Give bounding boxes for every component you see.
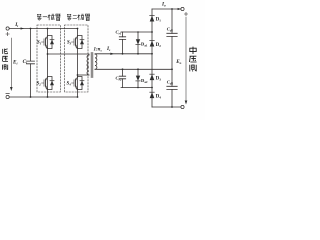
capacitor Cr2 (122, 69, 124, 87)
svg-text:S3: S3 (67, 41, 72, 46)
label 低压侧 (vertical) (2, 49, 8, 70)
wire output bottom rail (152, 106, 181, 108)
transistor S2 (42, 77, 48, 90)
node clamp2 left (122, 68, 124, 70)
transistor S1 (42, 36, 48, 49)
node string-clamp2 (151, 87, 153, 89)
wire leg1 mid to primary top (48, 54, 90, 55)
diode D4 (150, 92, 155, 98)
第 (67, 14, 71, 21)
capacitor Cd1 (171, 9, 173, 69)
terminal - (output negative) (181, 105, 184, 108)
node caps top (171, 8, 173, 10)
node leg1 mid (47, 53, 49, 55)
svg-text:S1: S1 (37, 41, 42, 46)
diode S3 antiparallel (78, 36, 85, 49)
node leg1 bottom (47, 96, 49, 98)
桥 (48, 14, 55, 20)
transistor S4 (72, 77, 78, 90)
dashed box leg2 (65, 25, 89, 92)
svg-text:D4: D4 (156, 94, 161, 99)
transformer core (91, 53, 93, 78)
label Ii current arrow (21, 27, 24, 29)
第 (37, 14, 41, 21)
臂 (56, 14, 61, 20)
diode S4 antiparallel (78, 77, 85, 90)
wire secondary top rail (95, 53, 152, 55)
侧 (190, 65, 196, 72)
node string-clamp1 (151, 31, 153, 33)
桥 (78, 14, 85, 20)
label 中压侧 (vertical) (190, 47, 197, 72)
wire top-left rail (9, 28, 77, 30)
低 (3, 49, 8, 54)
svg-text:D1: D1 (156, 17, 161, 22)
diode D3 (150, 74, 155, 80)
svg-text:D2: D2 (156, 43, 161, 48)
transformer secondary winding (95, 54, 97, 69)
node clamp1 diode top (137, 31, 139, 33)
diode S2 antiparallel (48, 77, 55, 90)
臂 (85, 14, 89, 20)
压 (2, 56, 8, 61)
node clamp1 diode (137, 53, 139, 55)
diode Da2 (137, 69, 139, 87)
capacitor Cr1 (122, 32, 124, 54)
侧 (3, 65, 8, 70)
svg-text:1:ns: 1:ns (94, 48, 103, 53)
transistor S3 (72, 36, 78, 49)
svg-text:D3: D3 (156, 76, 161, 81)
wire leg1 vertical (47, 29, 49, 98)
node clamp2 diode bottom (137, 87, 139, 89)
capacitor Cd2 (171, 69, 173, 107)
terminal + (input positive) (6, 27, 9, 30)
text labels (12, 2, 182, 100)
CJK glyph strokes (2, 14, 196, 71)
label 第一桥臂 (37, 14, 60, 21)
wire leg2 mid to primary bottom (78, 74, 90, 76)
node leg2 bottom (77, 96, 79, 98)
node leg2 top (77, 28, 79, 30)
node leg1 top (47, 28, 49, 30)
node string-secondary (151, 53, 153, 55)
node leg2 mid (77, 74, 79, 76)
node caps mid (171, 68, 173, 70)
node input-cap top (30, 28, 32, 30)
clamp top wire (121, 31, 152, 33)
wire rectifier string (151, 9, 153, 107)
label 第二桥臂 (67, 14, 90, 21)
diode D1 (150, 21, 155, 23)
terminal + (output positive) (181, 7, 184, 10)
一 (43, 16, 48, 18)
diode Da1 (137, 32, 139, 54)
node caps bottom (171, 106, 173, 108)
dashed box leg1 (37, 25, 61, 92)
node input-cap bottom (30, 96, 32, 98)
node clamp1 left (122, 53, 124, 55)
arrow is current (110, 53, 114, 55)
capacitor Ci (30, 29, 32, 98)
svg-text:S4: S4 (67, 82, 72, 87)
arrow Ei voltage (10, 38, 12, 88)
node clamp2 diode (137, 68, 139, 70)
arrow Io current (178, 8, 181, 10)
中 (190, 47, 196, 54)
wire bottom-left rail (9, 96, 77, 98)
wire secondary bottom rail (95, 68, 172, 70)
diode S1 antiparallel (48, 36, 55, 49)
diode D2 (150, 41, 155, 47)
压 (190, 56, 197, 62)
clamp bottom wire (121, 87, 152, 89)
wire output top rail (152, 8, 181, 10)
transformer primary winding (87, 55, 89, 75)
wire leg2 vertical (77, 29, 79, 98)
二 (73, 15, 77, 18)
terminal - (input negative) (6, 95, 9, 98)
svg-text:S2: S2 (37, 82, 42, 87)
